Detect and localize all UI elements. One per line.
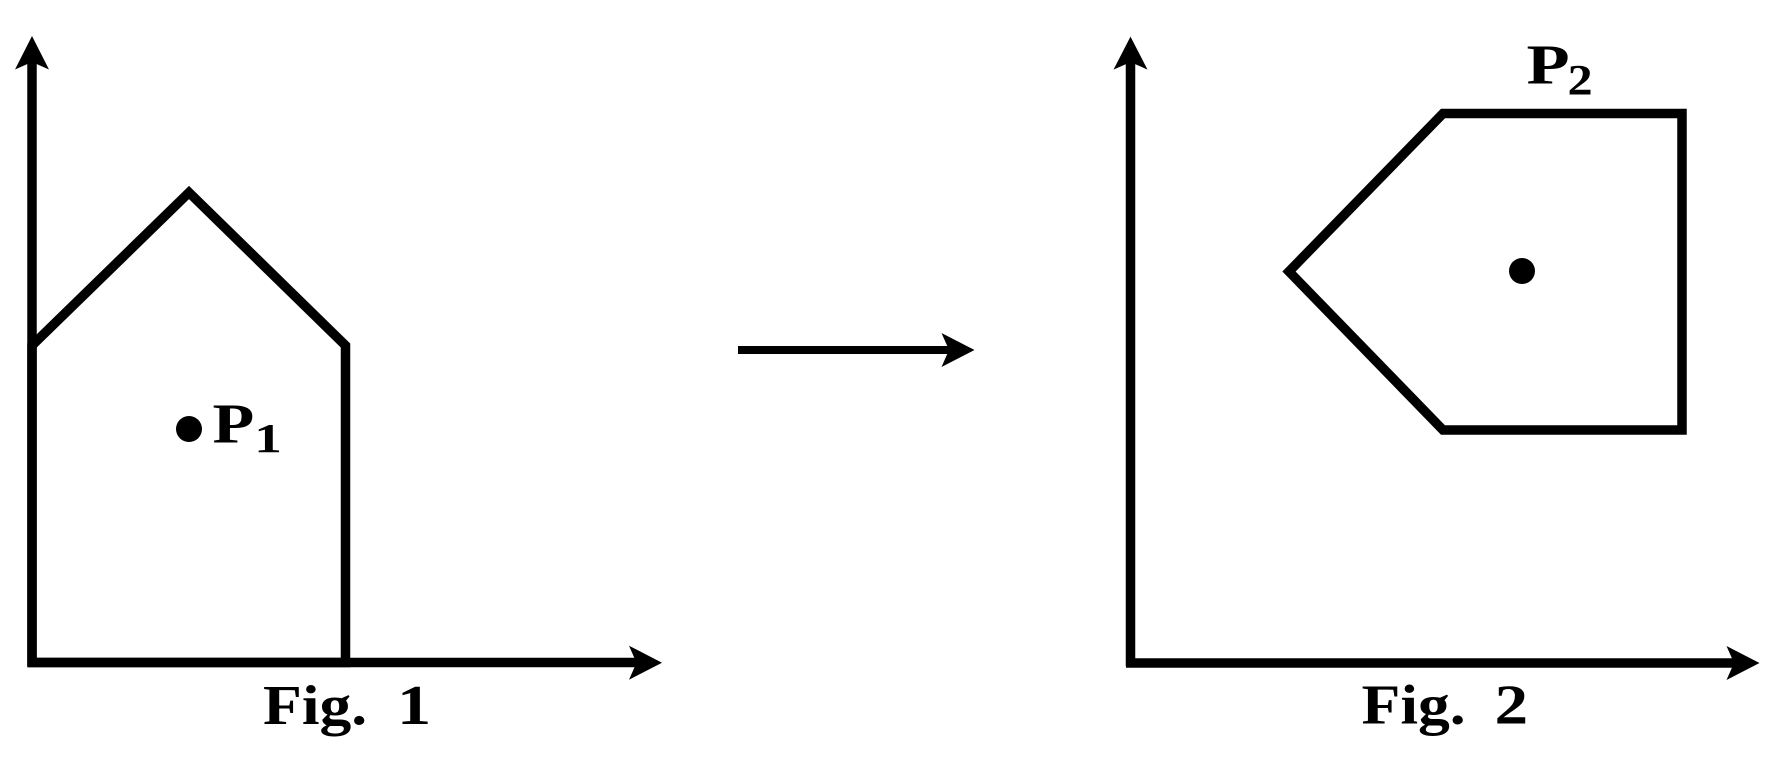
- svg-text:2: 2: [1495, 675, 1529, 737]
- x-axis Fig.2: [1126, 646, 1760, 680]
- point dot P1: [176, 416, 202, 442]
- transformation arrow: [738, 333, 975, 367]
- x-axis Fig.1: [28, 646, 663, 680]
- svg-text:Fig.: Fig.: [1362, 674, 1466, 737]
- house polygon Fig.1: [32, 193, 346, 663]
- label P1: [213, 392, 282, 461]
- rotated pentagon Fig.2: [1289, 114, 1682, 431]
- svg-text:1: 1: [397, 674, 431, 737]
- caption Fig. 1: [263, 674, 431, 738]
- svg-text:2: 2: [1568, 57, 1593, 105]
- svg-text:Fig.: Fig.: [263, 674, 367, 737]
- svg-text:1: 1: [254, 416, 282, 461]
- y-axis Fig.2: [1114, 37, 1148, 666]
- label P2: [1527, 33, 1593, 104]
- point dot P2: [1509, 258, 1535, 284]
- y-axis Fig.1: [15, 36, 49, 666]
- svg-text:P: P: [213, 392, 255, 455]
- caption Fig. 2: [1362, 674, 1529, 737]
- svg-text:P: P: [1527, 33, 1570, 96]
